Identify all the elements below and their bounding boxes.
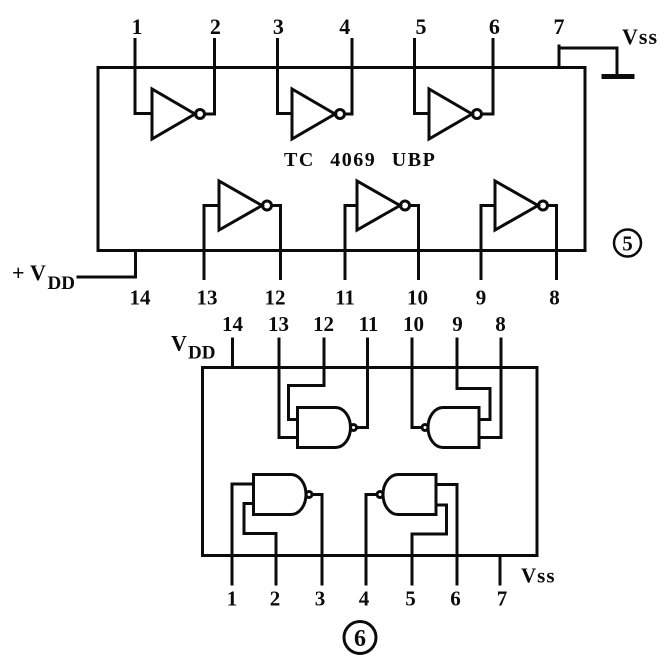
wire +VDD feed	[78, 276, 136, 279]
wire pin 14 stub (U2)	[231, 339, 234, 367]
wire pin 1 to NAND U2C input A	[232, 484, 254, 584]
svg-text:1: 1	[132, 14, 143, 39]
svg-text:7: 7	[554, 14, 565, 39]
svg-text:3: 3	[315, 587, 326, 611]
svg-text:8: 8	[495, 312, 506, 336]
svg-text:4: 4	[359, 587, 370, 611]
svg-text:V: V	[30, 260, 46, 285]
figure number 6	[344, 622, 376, 654]
svg-text:6: 6	[450, 587, 461, 611]
svg-text:6: 6	[354, 626, 366, 652]
net label VDD (U2)	[171, 331, 215, 364]
wire pin 2 to NAND U2C input B	[244, 504, 276, 585]
svg-text:2: 2	[210, 14, 221, 39]
svg-text:2: 2	[270, 587, 281, 611]
svg-text:12: 12	[313, 312, 334, 336]
NAND U2D	[377, 475, 436, 515]
svg-text:+: +	[12, 260, 25, 285]
net label +VDD	[12, 260, 75, 294]
wire U2A output to pin 11	[357, 339, 368, 428]
NAND U2A	[298, 408, 357, 448]
svg-text:TC 4069 UBP: TC 4069 UBP	[284, 149, 436, 171]
svg-text:5: 5	[622, 232, 633, 256]
svg-text:4: 4	[339, 14, 350, 39]
wire pin 8 to NAND U2B input B	[479, 339, 501, 438]
inverter U1D	[219, 181, 272, 230]
svg-text:Vss: Vss	[622, 24, 658, 49]
svg-text:1: 1	[227, 587, 238, 611]
svg-text:10: 10	[407, 286, 428, 310]
svg-text:3: 3	[273, 14, 284, 39]
wire pin 7 stub (U2)	[499, 556, 502, 585]
wire U1C output to pin 6	[482, 40, 494, 115]
svg-text:6: 6	[489, 14, 500, 39]
IC U1 outline (TC 4069 UBP hex inverter)	[98, 68, 585, 251]
wire pin 12 to NAND U2A input A	[289, 339, 325, 420]
svg-text:DD: DD	[188, 343, 215, 364]
wire pin 4 to NAND U2D output	[366, 495, 377, 585]
svg-text:13: 13	[197, 286, 218, 310]
wire pin 6 to NAND U2D input A	[436, 485, 457, 585]
wire pin 5 to inverter U1C input	[415, 40, 430, 114]
svg-text:9: 9	[452, 312, 463, 336]
svg-text:14: 14	[222, 312, 244, 336]
svg-text:9: 9	[476, 286, 487, 310]
wire pin 13 to NAND U2A input B	[279, 339, 298, 438]
wire U1D output to pin 12	[272, 206, 281, 279]
wire pin 14 stub	[134, 251, 137, 278]
svg-text:13: 13	[268, 312, 289, 336]
IC U2 outline (quad NAND)	[203, 368, 538, 556]
wire pin 9 to inverter U1F input	[481, 206, 495, 279]
inverter U1B	[292, 89, 345, 139]
wire pin 7 stub	[558, 46, 561, 67]
wire U1B output to pin 4	[345, 40, 353, 115]
svg-text:Vss: Vss	[521, 564, 556, 588]
svg-text:V: V	[171, 331, 187, 356]
svg-text:8: 8	[549, 286, 560, 310]
wire pin 7 to ground	[559, 48, 617, 74]
wire U1F output to pin 8	[548, 206, 557, 279]
svg-text:12: 12	[265, 286, 286, 310]
wire pin 11 to inverter U1E input	[345, 206, 357, 279]
wire pin 9 to NAND U2B input A	[457, 339, 490, 420]
inverter U1A	[152, 89, 205, 139]
inverter U1C	[429, 89, 482, 139]
inverter U1E	[357, 181, 410, 230]
wire pin 5 to NAND U2D input B	[412, 505, 447, 584]
NAND U2B	[422, 408, 479, 448]
inverter U1F	[495, 181, 548, 230]
wire pin 3 to inverter U1B input	[278, 40, 293, 114]
svg-text:7: 7	[497, 587, 508, 611]
svg-text:11: 11	[359, 312, 379, 336]
wire pin 13 to inverter U1D input	[204, 206, 219, 279]
ground	[604, 74, 632, 79]
svg-text:10: 10	[403, 312, 424, 336]
wire pin 1 to inverter U1A input	[135, 40, 152, 114]
wire U1A output to pin 2	[205, 40, 215, 115]
svg-text:14: 14	[130, 286, 152, 310]
svg-text:5: 5	[416, 14, 427, 39]
wire U1E output to pin 10	[410, 206, 419, 279]
svg-text:5: 5	[405, 587, 416, 611]
figure number 5	[614, 230, 641, 257]
wire U2C output to pin 3	[312, 495, 322, 585]
NAND U2C	[254, 475, 313, 515]
wire pin 10 to NAND U2B output	[412, 339, 422, 428]
svg-text:11: 11	[335, 286, 355, 310]
svg-text:DD: DD	[48, 273, 75, 294]
